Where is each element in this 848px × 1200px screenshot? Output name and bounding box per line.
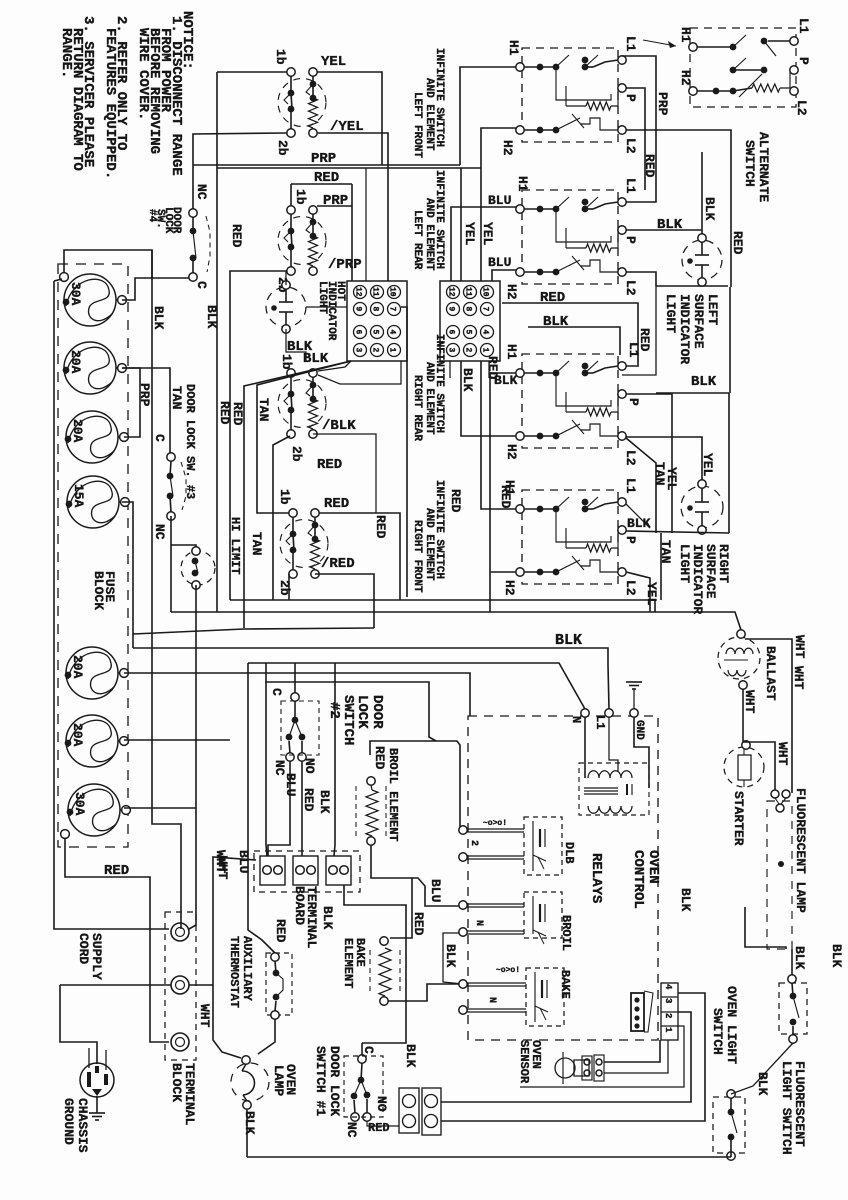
wire: cluster3 right bottom drop	[313, 434, 376, 513]
HI LIMIT switch dashed circle	[181, 551, 215, 585]
svg-text:BLK: BLK	[829, 944, 844, 968]
svg-text:BLOCK: BLOCK	[91, 571, 106, 610]
svg-text:~o>o!: ~o>o!	[496, 966, 520, 975]
wires sensor to connector 4321	[604, 1040, 660, 1062]
svg-text:RED: RED	[485, 356, 500, 380]
wire: cluster3 bottom-left drop x273	[273, 436, 290, 600]
wire: x661 drop to bus	[660, 533, 662, 600]
svg-text:H2: H2	[504, 284, 519, 300]
svg-text:BLK: BLK	[403, 1044, 418, 1068]
svg-text:RIGHT REAR: RIGHT REAR	[411, 375, 423, 441]
supply terminal circle bottom-left of fuse block	[61, 830, 70, 839]
svg-text:LEFT FRONT: LEFT FRONT	[411, 92, 423, 158]
relay BROIL terminals	[459, 901, 467, 909]
svg-text:12: 12	[354, 287, 363, 297]
terminal block stud 2	[171, 976, 189, 994]
surface switch cluster 3 (right rear)	[287, 369, 295, 377]
svg-text:1: 1	[663, 1027, 673, 1033]
wire: BLK bus y393	[656, 392, 729, 394]
wire: TAN vertical from 20A-2 to door lock sw3	[122, 368, 170, 453]
svg-text:L1: L1	[796, 18, 811, 34]
wire: bus y303 to sw3 L1	[502, 303, 638, 366]
wire: 30A lower output to x196 riser	[124, 807, 196, 809]
wire: hot lamp bottom	[286, 329, 306, 361]
wire: chassis to supply	[60, 985, 97, 1064]
wire: RED from lower 30A to terminal block	[65, 838, 169, 1042]
bus wire B1 y600	[230, 600, 655, 612]
svg-text:WHT: WHT	[742, 690, 757, 714]
surface switch cluster 1 (left front)	[287, 68, 295, 76]
svg-text:BLU: BLU	[488, 255, 511, 270]
svg-text:NC: NC	[152, 524, 167, 540]
svg-text:SWITCH: SWITCH	[742, 140, 757, 187]
wire: x244 drop to bus B3	[244, 361, 351, 628]
svg-text:NO: NO	[374, 1096, 389, 1112]
wire: bus y168	[217, 167, 481, 169]
svg-text:P: P	[623, 236, 638, 244]
svg-text:OVEN LIGHT: OVEN LIGHT	[724, 986, 739, 1064]
wire: 20A to 20A-3 link	[122, 368, 140, 437]
svg-text:20A: 20A	[70, 655, 85, 679]
svg-text:BLK: BLK	[555, 632, 582, 649]
wire: cluster1 left bottom to dls4	[193, 133, 287, 165]
ballast coils	[726, 648, 753, 654]
svg-text:BLOCK: BLOCK	[169, 1063, 184, 1102]
svg-text:RED: RED	[498, 485, 513, 509]
svg-text:L1: L1	[623, 478, 638, 494]
svg-text:20A: 20A	[68, 350, 83, 374]
bus wire B2 y612	[171, 612, 741, 630]
dls1 dashed box	[344, 1056, 383, 1117]
wire: H1 sw1 feed	[460, 67, 516, 165]
svg-text:6: 6	[354, 330, 363, 335]
svg-text:H2: H2	[502, 580, 517, 596]
transformer dashed box	[579, 763, 649, 815]
svg-text:C: C	[152, 434, 167, 442]
alternate switch dashed box	[690, 28, 796, 107]
svg-text:OVEN: OVEN	[645, 850, 661, 884]
circuit breaker 20A (3)	[66, 411, 118, 463]
infinite switch right rear box	[522, 354, 618, 448]
wire: oven lamp bottom to bus	[246, 1110, 248, 1157]
svg-text:BLK: BLK	[320, 906, 335, 930]
svg-text:3: 3	[447, 348, 456, 353]
wire: dls4 up to PRP bus	[192, 165, 194, 209]
wire: x133 drop from 15A to bus	[122, 502, 133, 648]
svg-text:7: 7	[481, 307, 490, 312]
wire: gnd hook	[634, 717, 649, 788]
plug ground pin triangle	[92, 1089, 102, 1096]
svg-text:15A: 15A	[71, 484, 86, 508]
transformer secondary coil	[588, 806, 632, 813]
svg-text:1: 1	[388, 348, 397, 353]
svg-text:30A: 30A	[68, 282, 83, 306]
svg-text:9: 9	[447, 307, 456, 312]
svg-text:H1: H1	[504, 344, 519, 360]
wire: hot lamp top	[285, 271, 287, 285]
transformer primary coil	[588, 771, 632, 778]
svg-text:SWITCH: SWITCH	[710, 1008, 725, 1055]
svg-text:9: 9	[354, 307, 363, 312]
wire: block bottom to cluster3 left top	[318, 361, 401, 384]
circuit breaker 20A (6)	[66, 715, 118, 767]
svg-text:BLK: BLK	[678, 888, 693, 912]
svg-text:DOOR LOCK SW. #3: DOOR LOCK SW. #3	[183, 384, 197, 499]
wire: L1 to transformer	[609, 717, 618, 772]
wire: cluster2 bottom-left to bus x230	[230, 271, 287, 600]
plug prong 2	[95, 1066, 99, 1073]
infinite switch right front box	[522, 490, 618, 584]
svg-text:4: 4	[663, 984, 673, 990]
wire: H1 sw3 feed	[490, 373, 516, 612]
left surface indicator light lamp	[682, 240, 722, 280]
svg-text:20A: 20A	[70, 419, 85, 443]
svg-text:CONTROL: CONTROL	[630, 850, 646, 909]
wire: x729 up to BLK bus	[728, 393, 730, 533]
wire stubs below right block	[449, 361, 451, 378]
wire: bus to dls1 zone riser x520	[519, 1102, 521, 1121]
svg-text:BLK: BLK	[627, 516, 651, 531]
svg-text:LAMP: LAMP	[271, 1065, 286, 1096]
svg-text:WHT: WHT	[791, 666, 806, 690]
circuit breaker 30A (1)	[64, 274, 116, 326]
svg-text:5: 5	[464, 330, 473, 335]
svg-text:L1: L1	[626, 342, 641, 358]
svg-text:LIGHT: LIGHT	[316, 281, 328, 314]
wire: block bottom to cluster3 right top	[318, 361, 351, 371]
wire: sw2 L1 junction	[626, 133, 656, 202]
wire: hi-limit down to terminal block stud1	[189, 585, 196, 929]
svg-text:/YEL: /YEL	[330, 119, 364, 135]
svg-text:BLK: BLK	[242, 1111, 257, 1135]
alt switch contacts	[697, 46, 733, 48]
bus bottom y1157	[247, 1156, 731, 1158]
svg-text:RED: RED	[372, 746, 387, 770]
oven lamp	[242, 1056, 250, 1064]
svg-text:RED: RED	[229, 224, 244, 248]
svg-text:INDICATOR: INDICATOR	[677, 294, 692, 364]
fluorescent lamp tube dashed box	[767, 801, 792, 949]
svg-text:CHASSIS: CHASSIS	[75, 1098, 90, 1153]
svg-text:BLK: BLK	[151, 306, 166, 330]
svg-text:BLK: BLK	[657, 217, 683, 233]
infinite switch left front box	[522, 48, 618, 142]
connector 8-dot	[631, 993, 644, 1031]
wire: sw1 L2 across to x731	[626, 130, 731, 287]
svg-text:RED: RED	[730, 231, 745, 255]
wire: y682 rail to broil	[266, 663, 436, 741]
terminal board dashed box	[254, 851, 360, 892]
supply terminal circle top-left of fuse block	[60, 273, 69, 282]
aux thermostat contacts	[271, 953, 279, 961]
svg-text:BROIL: BROIL	[559, 915, 573, 951]
wire: top feed from fuse block to door lock sw4 C	[64, 250, 189, 278]
terminal board lug A	[399, 1088, 419, 1133]
svg-text:#4: #4	[146, 209, 158, 223]
wire: x461 drop from bus to block	[460, 168, 462, 281]
svg-text:P: P	[623, 536, 638, 544]
wire: aux thermostat bottom to oven lamp	[258, 1019, 275, 1054]
fls contacts	[788, 975, 796, 983]
wire: lamp bottom tee y533	[626, 531, 729, 533]
svg-text:BLK: BLK	[317, 790, 332, 814]
svg-text:10: 10	[481, 287, 490, 297]
fluorescent lamp socket pins	[771, 790, 779, 798]
wire: block pin7 to bus riser x407	[401, 307, 407, 597]
door lock switch #4 contact chain	[189, 209, 197, 217]
svg-text:ELEMENT: ELEMENT	[341, 938, 355, 988]
svg-text:H2: H2	[504, 444, 519, 460]
wire: chassis plug tail to ground symbol	[96, 1096, 98, 1113]
relay BAKE terminals	[459, 980, 467, 988]
wire: vertical rail x152 down to terminal block	[152, 250, 181, 929]
svg-text:RELAYS: RELAYS	[588, 853, 604, 903]
svg-text:N: N	[569, 716, 583, 723]
svg-text:6: 6	[447, 330, 456, 335]
terminal board lug B	[422, 1088, 441, 1135]
wire: sw3 P drop x672	[626, 394, 672, 533]
wire: left tall rail x217	[216, 72, 218, 612]
svg-text:RIGHT FRONT: RIGHT FRONT	[411, 520, 423, 593]
transformer core bars	[584, 787, 618, 789]
wire: x492 drop H2 sw2	[492, 270, 516, 281]
chassis ground plug circle	[80, 1063, 114, 1097]
svg-text:TAN: TAN	[249, 532, 264, 555]
wire: plug entries	[88, 1048, 90, 1068]
circuit breaker 20A (5)	[66, 647, 118, 699]
bus wire B4 y648	[133, 648, 609, 709]
svg-text:2: 2	[663, 1013, 673, 1018]
wire: dls1 C to BLK riser	[344, 885, 406, 1043]
wire: tap to hi-limit	[171, 545, 196, 551]
wire: BLU from broil junction to relay	[412, 878, 463, 906]
wire: WHT from terminal block stud2 up to terminal board	[189, 857, 256, 985]
svg-text:RED: RED	[317, 457, 342, 473]
svg-text:TAN: TAN	[169, 386, 184, 409]
relay BROIL	[524, 892, 562, 938]
wire: RED bus y184	[291, 183, 352, 185]
circuit breaker 30A (7)	[68, 784, 120, 836]
svg-text:RED: RED	[230, 402, 245, 426]
svg-text:L2: L2	[623, 580, 638, 596]
wire: ballast top to lamp right	[745, 639, 792, 793]
svg-text:C: C	[194, 281, 209, 289]
circuit breaker 15A (4)	[67, 476, 119, 528]
svg-text:1b: 1b	[293, 189, 308, 205]
wire: bus y327	[528, 327, 620, 355]
wires oven light switch nest	[441, 993, 705, 1121]
wire: cluster4 bottom to bus	[288, 574, 290, 600]
svg-text:RED: RED	[642, 154, 657, 178]
door lock switch #2 contacts	[291, 693, 299, 701]
svg-text:4: 4	[388, 330, 397, 335]
svg-text:YEL: YEL	[664, 467, 679, 491]
starter dashed circle	[724, 747, 764, 787]
wire: H2 sw4 feed	[490, 571, 516, 573]
svg-text:3: 3	[663, 998, 673, 1003]
svg-text:BLU: BLU	[428, 879, 443, 902]
svg-text:RED: RED	[104, 863, 129, 879]
wire: cluster4 right top riser x400	[319, 513, 400, 600]
svg-text:LIGHT SWITCH: LIGHT SWITCH	[779, 1061, 794, 1155]
sensor connector 2	[594, 1055, 604, 1081]
svg-text:THERMOSTAT: THERMOSTAT	[227, 936, 241, 1008]
terminal block right (surface switch harness)	[440, 281, 500, 361]
svg-text:4: 4	[481, 330, 490, 335]
wire: BLK from 30A breaker jog	[122, 278, 152, 300]
bus wire B3 y628	[133, 628, 374, 634]
wire: sw1 P drop	[626, 88, 645, 190]
svg-text:GROUND: GROUND	[61, 1098, 76, 1145]
svg-text:BLK: BLK	[691, 374, 717, 390]
svg-text:30A: 30A	[72, 792, 87, 816]
svg-text:LIGHT: LIGHT	[663, 294, 678, 333]
oven control dashed box	[468, 716, 658, 1040]
wire: block to cluster4 top via x257	[257, 361, 351, 513]
svg-text:FEATURES EQUIPPED.: FEATURES EQUIPPED.	[102, 28, 118, 179]
wire: sw3 L2 to right lamp top y437	[626, 437, 702, 485]
wire: BLK jumper broil-N to bake relay	[443, 933, 463, 984]
svg-text:1b: 1b	[277, 489, 292, 505]
wire: x266 drop to terminal board lug1	[266, 682, 267, 856]
wire: lamp to fls	[791, 949, 793, 975]
wire stubs above left block	[365, 168, 367, 281]
svg-text:YEL: YEL	[321, 54, 346, 70]
svg-text:L2: L2	[794, 100, 809, 116]
ground symbol	[626, 681, 642, 683]
ground symbol chassis	[89, 1112, 105, 1114]
sensor connector 1	[582, 1056, 592, 1080]
hot indicator light lamp	[266, 287, 306, 327]
svg-text:2: 2	[464, 348, 473, 353]
wire: aux thermostat top feed RED	[248, 663, 275, 953]
svg-text:BROIL ELEMENT: BROIL ELEMENT	[386, 748, 400, 842]
svg-text:WIRE COVER.: WIRE COVER.	[135, 28, 151, 120]
wire: PRP bus y165	[193, 164, 460, 166]
right surface indicator light lamp	[681, 486, 723, 528]
svg-text:P: P	[623, 94, 638, 102]
wires lug B right	[438, 1100, 520, 1102]
svg-text:PRP: PRP	[311, 151, 336, 167]
broil element resistor	[367, 777, 375, 785]
connector 4-3-2-1	[661, 983, 678, 1040]
wire: RED drop from lamp x730	[729, 287, 731, 393]
wire: cluster1 right bottom to block x388	[317, 133, 388, 281]
terminal board lug 1	[260, 856, 285, 885]
svg-text:DLB: DLB	[562, 842, 576, 864]
wire: WHT down to oven lamp	[213, 985, 241, 1058]
door lock switch #3 contact chain	[167, 453, 175, 461]
svg-text:2b: 2b	[289, 446, 304, 462]
svg-text:1b: 1b	[279, 354, 294, 370]
wire: BLK drop x322 from bus to terminal board	[322, 663, 333, 852]
terminal block dashed box	[165, 912, 196, 1060]
terminal board lug 2	[293, 856, 318, 885]
svg-text:AND ELEMENT: AND ELEMENT	[423, 198, 435, 271]
relay BAKE	[526, 968, 564, 1026]
svg-text:RED: RED	[324, 496, 349, 512]
svg-text:8: 8	[464, 307, 473, 312]
relay DLB terminals	[459, 826, 467, 834]
svg-text:C: C	[361, 1046, 376, 1054]
svg-text:AUXILIARY: AUXILIARY	[240, 936, 254, 1002]
wire: H2 sw3 feed	[460, 361, 516, 436]
svg-text:BLK: BLK	[460, 368, 475, 392]
svg-text:CORD: CORD	[76, 933, 91, 964]
svg-text:RANGE.: RANGE.	[58, 28, 74, 78]
wire: x481 drop H2 sw1	[481, 128, 516, 281]
svg-text:L2: L2	[623, 138, 638, 154]
svg-text:L1: L1	[623, 178, 638, 194]
svg-text:LIGHT: LIGHT	[677, 544, 692, 583]
wire: sw2 P to BLK drop	[626, 229, 702, 231]
terminal block stud 3	[171, 1033, 189, 1051]
svg-text:WHT: WHT	[792, 635, 807, 659]
oven light switch dashed box	[713, 1097, 745, 1153]
svg-text:1b: 1b	[273, 49, 288, 65]
svg-text:BLK: BLK	[792, 946, 807, 970]
svg-text:STARTER: STARTER	[731, 791, 746, 846]
svg-text:AND ELEMENT: AND ELEMENT	[423, 362, 435, 435]
svg-text:N: N	[486, 997, 497, 1003]
svg-text:WHT: WHT	[215, 856, 230, 880]
svg-text:L2: L2	[623, 280, 638, 296]
wire: ballast bottom down to starter wire	[742, 689, 744, 742]
terminal block stud 1	[171, 923, 189, 941]
svg-text:BOARD: BOARD	[292, 886, 307, 925]
surface switch cluster 2 (left rear)	[287, 206, 295, 214]
circuit breaker 20A (2)	[64, 342, 116, 394]
svg-text:20A: 20A	[70, 723, 85, 747]
svg-text:ALTERNATE: ALTERNATE	[756, 132, 771, 202]
wire: cluster1 right bottom goes right	[317, 133, 470, 150]
wire: top rail y72 to cluster1	[217, 71, 287, 73]
svg-text:TAN: TAN	[658, 540, 673, 563]
svg-text:12: 12	[447, 287, 456, 297]
svg-text:7: 7	[388, 307, 397, 312]
surface switch cluster 4 (right front)	[289, 509, 297, 517]
svg-text:P: P	[626, 398, 641, 406]
wire: y673 breaker bus	[124, 673, 470, 716]
relay DLB	[524, 817, 562, 875]
svg-text:PRP: PRP	[655, 92, 670, 116]
wire: broil feed top	[370, 741, 463, 830]
wire: N to transformer	[584, 717, 586, 778]
oven sensor bulb	[555, 1058, 575, 1078]
wire: sw3 L2 diagonal TAN	[626, 438, 656, 533]
svg-text:DOOR: DOOR	[369, 695, 385, 729]
svg-text:DOOR LOCK: DOOR LOCK	[327, 1046, 342, 1116]
svg-text:5: 5	[371, 330, 380, 335]
svg-text:H2: H2	[678, 70, 693, 86]
svg-text:AND ELEMENT: AND ELEMENT	[423, 508, 435, 581]
alt switch terminals	[689, 43, 697, 51]
svg-text:11: 11	[371, 287, 380, 297]
svg-text:WHT: WHT	[197, 1004, 212, 1028]
svg-text:1: 1	[481, 348, 490, 353]
svg-text:BLU: BLU	[488, 193, 511, 208]
svg-text:BLK: BLK	[443, 944, 458, 968]
svg-text:2: 2	[371, 348, 380, 353]
ballast dashed circle	[718, 637, 760, 679]
svg-text:8: 8	[371, 307, 380, 312]
svg-text:LEFT: LEFT	[705, 294, 720, 325]
wire: cluster4 right bottom to bus	[315, 574, 374, 628]
transformer cap bars	[626, 784, 628, 795]
wire: sw4 L2	[626, 572, 650, 612]
svg-text:H1: H1	[506, 40, 521, 56]
svg-text:RED: RED	[301, 788, 316, 812]
